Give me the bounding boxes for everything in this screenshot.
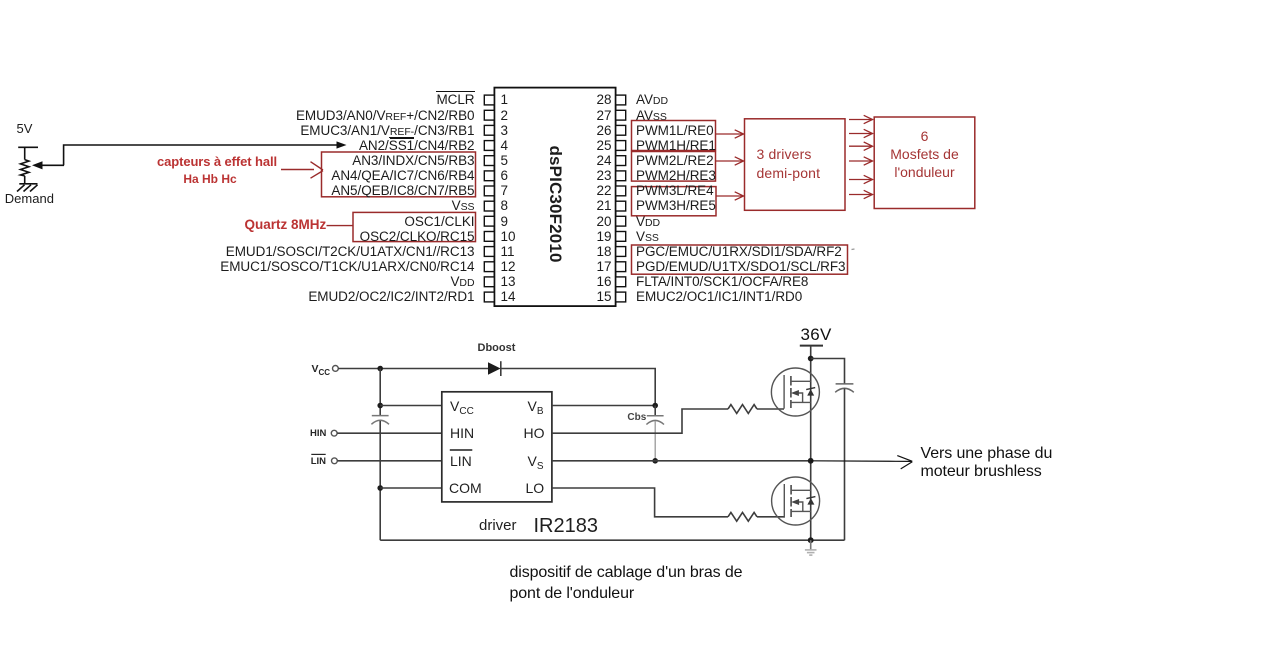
wire resistor R1 to Q1 gate bbox=[757, 408, 784, 410]
IC U1 dsPIC30F2010 body bbox=[494, 88, 615, 307]
overline on LIN terminal label bbox=[311, 453, 325, 455]
red arrow drivers to mosfets #4 bbox=[849, 157, 873, 165]
potentiometer resistor body bbox=[21, 160, 29, 176]
pin 8 label bbox=[452, 199, 475, 213]
capacitor Cbs bbox=[646, 416, 664, 425]
caption dispositif de cablage bbox=[510, 562, 743, 604]
wire left vertical (cap to COM) bbox=[379, 421, 381, 540]
transistor Q2 (low-side MOSFET) bbox=[772, 477, 820, 525]
IC U2 pin label HO bbox=[524, 426, 545, 440]
pin 24 label bbox=[636, 154, 714, 168]
pin 6 label bbox=[331, 169, 474, 183]
label Demand node bbox=[5, 192, 54, 205]
wire VB to bootstrap node bbox=[552, 405, 655, 407]
wire COM bottom rail bbox=[380, 539, 844, 541]
36V supply bar bbox=[800, 345, 823, 347]
red arrow drivers to mosfets #1 bbox=[849, 115, 873, 123]
pin 9 label bbox=[404, 215, 474, 229]
text Vers une phase du moteur brushless bbox=[921, 445, 1053, 481]
pin 28 label bbox=[636, 93, 668, 107]
pin 14 label bbox=[308, 290, 474, 304]
pin 5 label bbox=[352, 154, 474, 168]
IC U2 pin label LO bbox=[526, 481, 545, 495]
junction phase node bbox=[808, 458, 814, 464]
IC U1 name dsPIC30F2010 bbox=[545, 138, 565, 270]
red arrow capteurs to hall box bbox=[281, 162, 323, 179]
text 3 drivers demi-pont bbox=[757, 145, 821, 184]
IC U2 pin label VCC bbox=[450, 399, 474, 414]
wire snubber cap to bottom rail bbox=[844, 389, 846, 541]
pin 17 label bbox=[636, 260, 846, 274]
pin 12 label bbox=[220, 260, 474, 274]
text 6 Mosfets de l'onduleur bbox=[874, 128, 975, 182]
label Vcc terminal bbox=[312, 364, 331, 375]
IC U2 pin label VS bbox=[528, 454, 544, 469]
capacitor C2 (bus) bbox=[835, 384, 854, 392]
terminal HIN (circle) bbox=[331, 430, 337, 436]
arrowhead into AN2 pin bbox=[337, 141, 347, 148]
IC U2 pin label LIN bbox=[450, 454, 472, 468]
red box around PWM2 pins bbox=[632, 152, 716, 182]
label Cbs bbox=[627, 413, 646, 423]
wire COM to IC bbox=[380, 487, 442, 489]
IC U1 pin numbers 28-15 bbox=[596, 93, 611, 107]
red arrow drivers to mosfets #3 bbox=[849, 142, 873, 150]
overline on LIN IC pin label bbox=[450, 449, 473, 451]
wire VS (phase node) bbox=[552, 460, 811, 462]
label HIN terminal bbox=[310, 429, 326, 439]
red arrow drivers to mosfets #5 bbox=[849, 175, 873, 183]
pin 13 label bbox=[450, 275, 474, 289]
red arrow drivers to mosfets #2 bbox=[849, 129, 873, 137]
pin 27 label bbox=[636, 109, 667, 123]
IC U2 pin label HIN bbox=[450, 426, 474, 440]
red arrow drivers to mosfets #6 bbox=[849, 190, 873, 198]
block 6 Mosfets de l'onduleur bbox=[874, 117, 975, 209]
pin 20 label bbox=[636, 215, 660, 229]
pin 15 label bbox=[636, 290, 802, 304]
wire Vcc rail (left of diode) bbox=[338, 368, 488, 370]
label 5V supply bbox=[17, 122, 33, 135]
red line Quartz to OSC box bbox=[327, 225, 354, 227]
pin 21 label bbox=[636, 199, 716, 213]
annotation capteurs a effet hall bbox=[156, 155, 278, 168]
pin 22 label bbox=[636, 184, 714, 198]
junction Vcc rail / left cap bbox=[377, 366, 383, 372]
red arrow PWM3 to drivers bbox=[716, 192, 744, 200]
ground (power) bbox=[805, 540, 817, 555]
arrowhead phase output bbox=[897, 456, 912, 469]
potentiometer wiper arrow bbox=[32, 161, 64, 169]
wire HO to gate resistor bbox=[552, 409, 728, 433]
red arrow PWM1 to drivers bbox=[716, 130, 744, 138]
label IR2183 bbox=[534, 516, 599, 536]
wire Cbs upper stub bbox=[654, 406, 656, 416]
annotation Ha Hb Hc bbox=[156, 173, 264, 185]
pin 19 label bbox=[636, 230, 659, 244]
IC U2 IR2183 body bbox=[442, 392, 552, 502]
pin 3 label bbox=[300, 124, 474, 138]
pin 26 label bbox=[636, 124, 714, 138]
wire HIN to IC bbox=[337, 432, 442, 434]
wire left vertical (Vcc cap branch upper) bbox=[379, 369, 381, 416]
wire Vcc to IC pin VCC bbox=[380, 405, 442, 407]
red arrow PWM2 to drivers bbox=[716, 157, 744, 165]
junction Vcc pin wire bbox=[377, 403, 383, 409]
junction bottom rail / source bbox=[808, 537, 814, 543]
pin 1 label bbox=[436, 93, 474, 107]
wire pot bottom stub bbox=[24, 176, 26, 184]
pin 7 label bbox=[331, 184, 474, 198]
label LIN terminal bbox=[311, 457, 326, 467]
IC U2 pin label COM bbox=[449, 481, 482, 495]
diode Dboost bbox=[488, 361, 501, 376]
wire Cbs lower stub to VS bbox=[654, 421, 656, 461]
stray tick after PGC box bbox=[852, 248, 855, 251]
wire pot top stub bbox=[24, 147, 26, 159]
red box around PGC/PGD pins bbox=[632, 245, 848, 274]
junction 36V / snubber branch bbox=[808, 356, 814, 362]
wire LO to gate resistor bbox=[552, 488, 728, 517]
annotation Quartz 8MHz bbox=[245, 218, 327, 232]
resistor R2 (low-side gate) bbox=[728, 512, 757, 521]
red box around hall sensor pins RB3-RB5 bbox=[322, 152, 476, 197]
ground (pot, hatched) bbox=[17, 184, 38, 192]
wire phase output to arrow bbox=[811, 460, 912, 463]
IC U1 left pin squares (pins 1-14) bbox=[484, 95, 494, 302]
terminal Vcc (circle) bbox=[333, 366, 339, 372]
transistor Q1 (high-side MOSFET) bbox=[771, 368, 819, 416]
label driver bbox=[479, 518, 517, 533]
IC U1 pin numbers 1-14 bbox=[501, 93, 509, 107]
pin 25 label bbox=[636, 139, 716, 153]
red box around OSC pins bbox=[353, 212, 476, 241]
capacitor C1 (Vcc decoupling) bbox=[371, 416, 389, 425]
pin 11 label bbox=[226, 245, 475, 259]
pin 4 label bbox=[359, 139, 475, 153]
resistor R1 (high-side gate) bbox=[728, 405, 757, 414]
pin 2 label bbox=[296, 109, 475, 123]
terminal LIN (circle) bbox=[332, 458, 338, 464]
label Dboost bbox=[478, 343, 516, 354]
red box around PWM3 pins bbox=[632, 187, 717, 216]
wire wiper to AN2 (vertical jog) bbox=[64, 145, 338, 165]
junction COM wire bbox=[377, 485, 383, 491]
wire 36V down to bridge bbox=[810, 346, 812, 541]
wire LIN to IC bbox=[337, 460, 441, 462]
pin 10 label bbox=[360, 230, 475, 244]
wire to snubber cap (top) bbox=[811, 359, 845, 384]
pin 18 label bbox=[636, 245, 842, 259]
wire Vcc rail (diode to bootstrap corner) bbox=[501, 369, 655, 406]
potentiometer top terminal bar bbox=[18, 146, 38, 148]
block 3 drivers demi-pont bbox=[745, 119, 846, 211]
junction Cbs / VS wire bbox=[652, 458, 658, 464]
junction VB / Cbs bbox=[652, 403, 658, 409]
red box around PWM1 pins bbox=[632, 121, 716, 151]
label 36V supply bbox=[801, 326, 832, 343]
pin 23 label bbox=[636, 169, 716, 183]
IC U1 right pin squares (pins 28-15) bbox=[616, 95, 626, 302]
wire resistor R2 to Q2 gate bbox=[757, 516, 784, 518]
IC U2 pin label VB bbox=[528, 399, 544, 414]
pin 16 label bbox=[636, 275, 808, 289]
